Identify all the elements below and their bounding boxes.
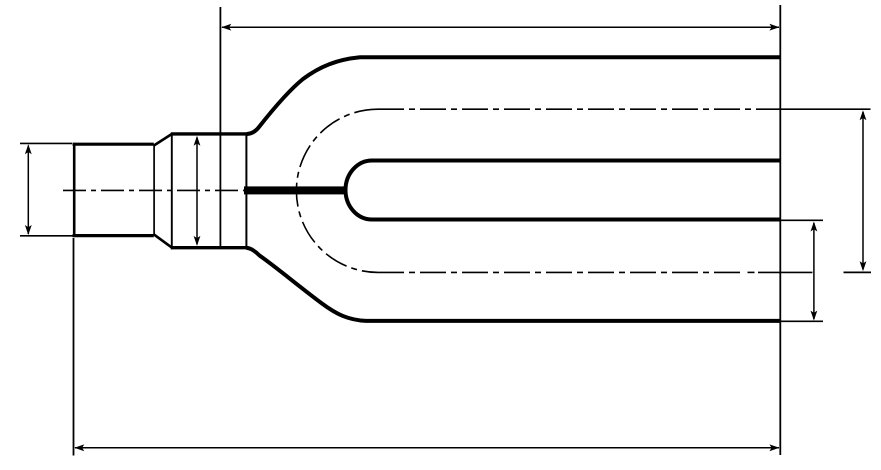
centerline U-arc — [296, 109, 378, 272]
upper tube centerline — [378, 108, 756, 110]
upper centerline solid extension to right dimension — [756, 108, 871, 110]
bottom dimension line — [74, 444, 779, 451]
right long extension line — [779, 5, 781, 455]
lower tube top extension tick — [781, 219, 823, 221]
flange diameter dimension line with arrows — [194, 136, 201, 246]
left dimension top extension line — [20, 142, 72, 144]
left dimension line with arrows — [25, 144, 32, 235]
main axis centerline — [63, 189, 246, 191]
entry tube left end edge — [73, 143, 76, 237]
entry tube / taper junction line — [153, 145, 155, 234]
top dimension line — [221, 24, 779, 31]
taper top slope — [154, 134, 172, 146]
bottom dimension left extension line — [73, 238, 75, 456]
left dimension bottom extension line — [20, 235, 73, 237]
crotch web thick bar — [244, 186, 348, 194]
lower tube centerline — [378, 271, 812, 273]
lower branch outer curve — [247, 248, 780, 321]
top dimension left extension line — [219, 7, 221, 249]
lower tube bottom extension tick — [781, 320, 823, 322]
upper branch outer curve — [247, 57, 780, 134]
flange top edge — [171, 132, 248, 135]
flange bottom edge — [171, 246, 248, 249]
flange right edge line — [245, 132, 247, 249]
right small dimension line with arrows — [811, 222, 818, 321]
lower centerline short extension tick at right — [844, 271, 872, 273]
entry tube bottom edge — [73, 234, 154, 237]
taper bottom slope — [154, 234, 172, 247]
inner separation U-turn and tube inner edges — [346, 161, 780, 220]
right big dimension line with arrows — [860, 110, 867, 271]
flange left edge line — [171, 133, 173, 250]
entry tube top edge — [73, 143, 154, 146]
